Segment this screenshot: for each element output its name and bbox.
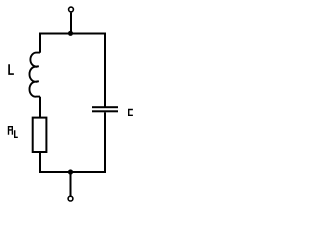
wire: top terminal to top junction bbox=[70, 13, 72, 34]
node: bottom terminal (open circle) bbox=[68, 196, 73, 201]
wire: top horizontal rail bbox=[39, 33, 106, 35]
node: top junction dot bbox=[68, 31, 73, 36]
wire: resistor to bottom rail bbox=[39, 152, 41, 173]
wire: coil to resistor bbox=[39, 97, 41, 118]
wire: left branch upper vertical bbox=[39, 33, 41, 53]
capacitor C top plate bbox=[92, 106, 118, 108]
inductor L (coil, 3 left-bulging turns) bbox=[29, 53, 40, 97]
wire: right branch upper vertical bbox=[104, 33, 106, 107]
label L (inductor) bbox=[9, 64, 14, 74]
wire: bottom horizontal rail bbox=[39, 171, 106, 173]
label L subscript of RL bbox=[15, 130, 18, 137]
node: top terminal (open circle) bbox=[69, 7, 74, 12]
node: bottom junction dot bbox=[68, 169, 73, 174]
capacitor C bottom plate bbox=[92, 110, 118, 112]
resistor RL (rectangle body) bbox=[33, 118, 47, 152]
label R (resistor) bbox=[9, 127, 13, 135]
label R leg bbox=[11, 131, 13, 135]
wire: bottom junction to bottom terminal bbox=[70, 172, 72, 196]
label C (capacitor) bbox=[129, 110, 133, 116]
wire: right branch lower vertical bbox=[104, 112, 106, 173]
